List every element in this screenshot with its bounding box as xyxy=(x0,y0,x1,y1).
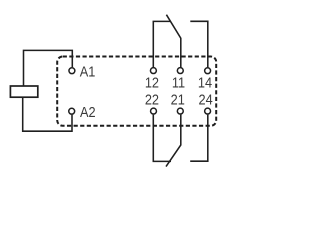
svg-text:14: 14 xyxy=(198,73,212,90)
svg-text:22: 22 xyxy=(145,90,159,107)
svg-text:12: 12 xyxy=(145,73,159,90)
svg-text:24: 24 xyxy=(199,90,213,107)
svg-text:11: 11 xyxy=(172,73,185,90)
svg-text:A2: A2 xyxy=(80,103,96,120)
svg-text:A1: A1 xyxy=(80,63,96,80)
svg-text:21: 21 xyxy=(171,90,185,107)
